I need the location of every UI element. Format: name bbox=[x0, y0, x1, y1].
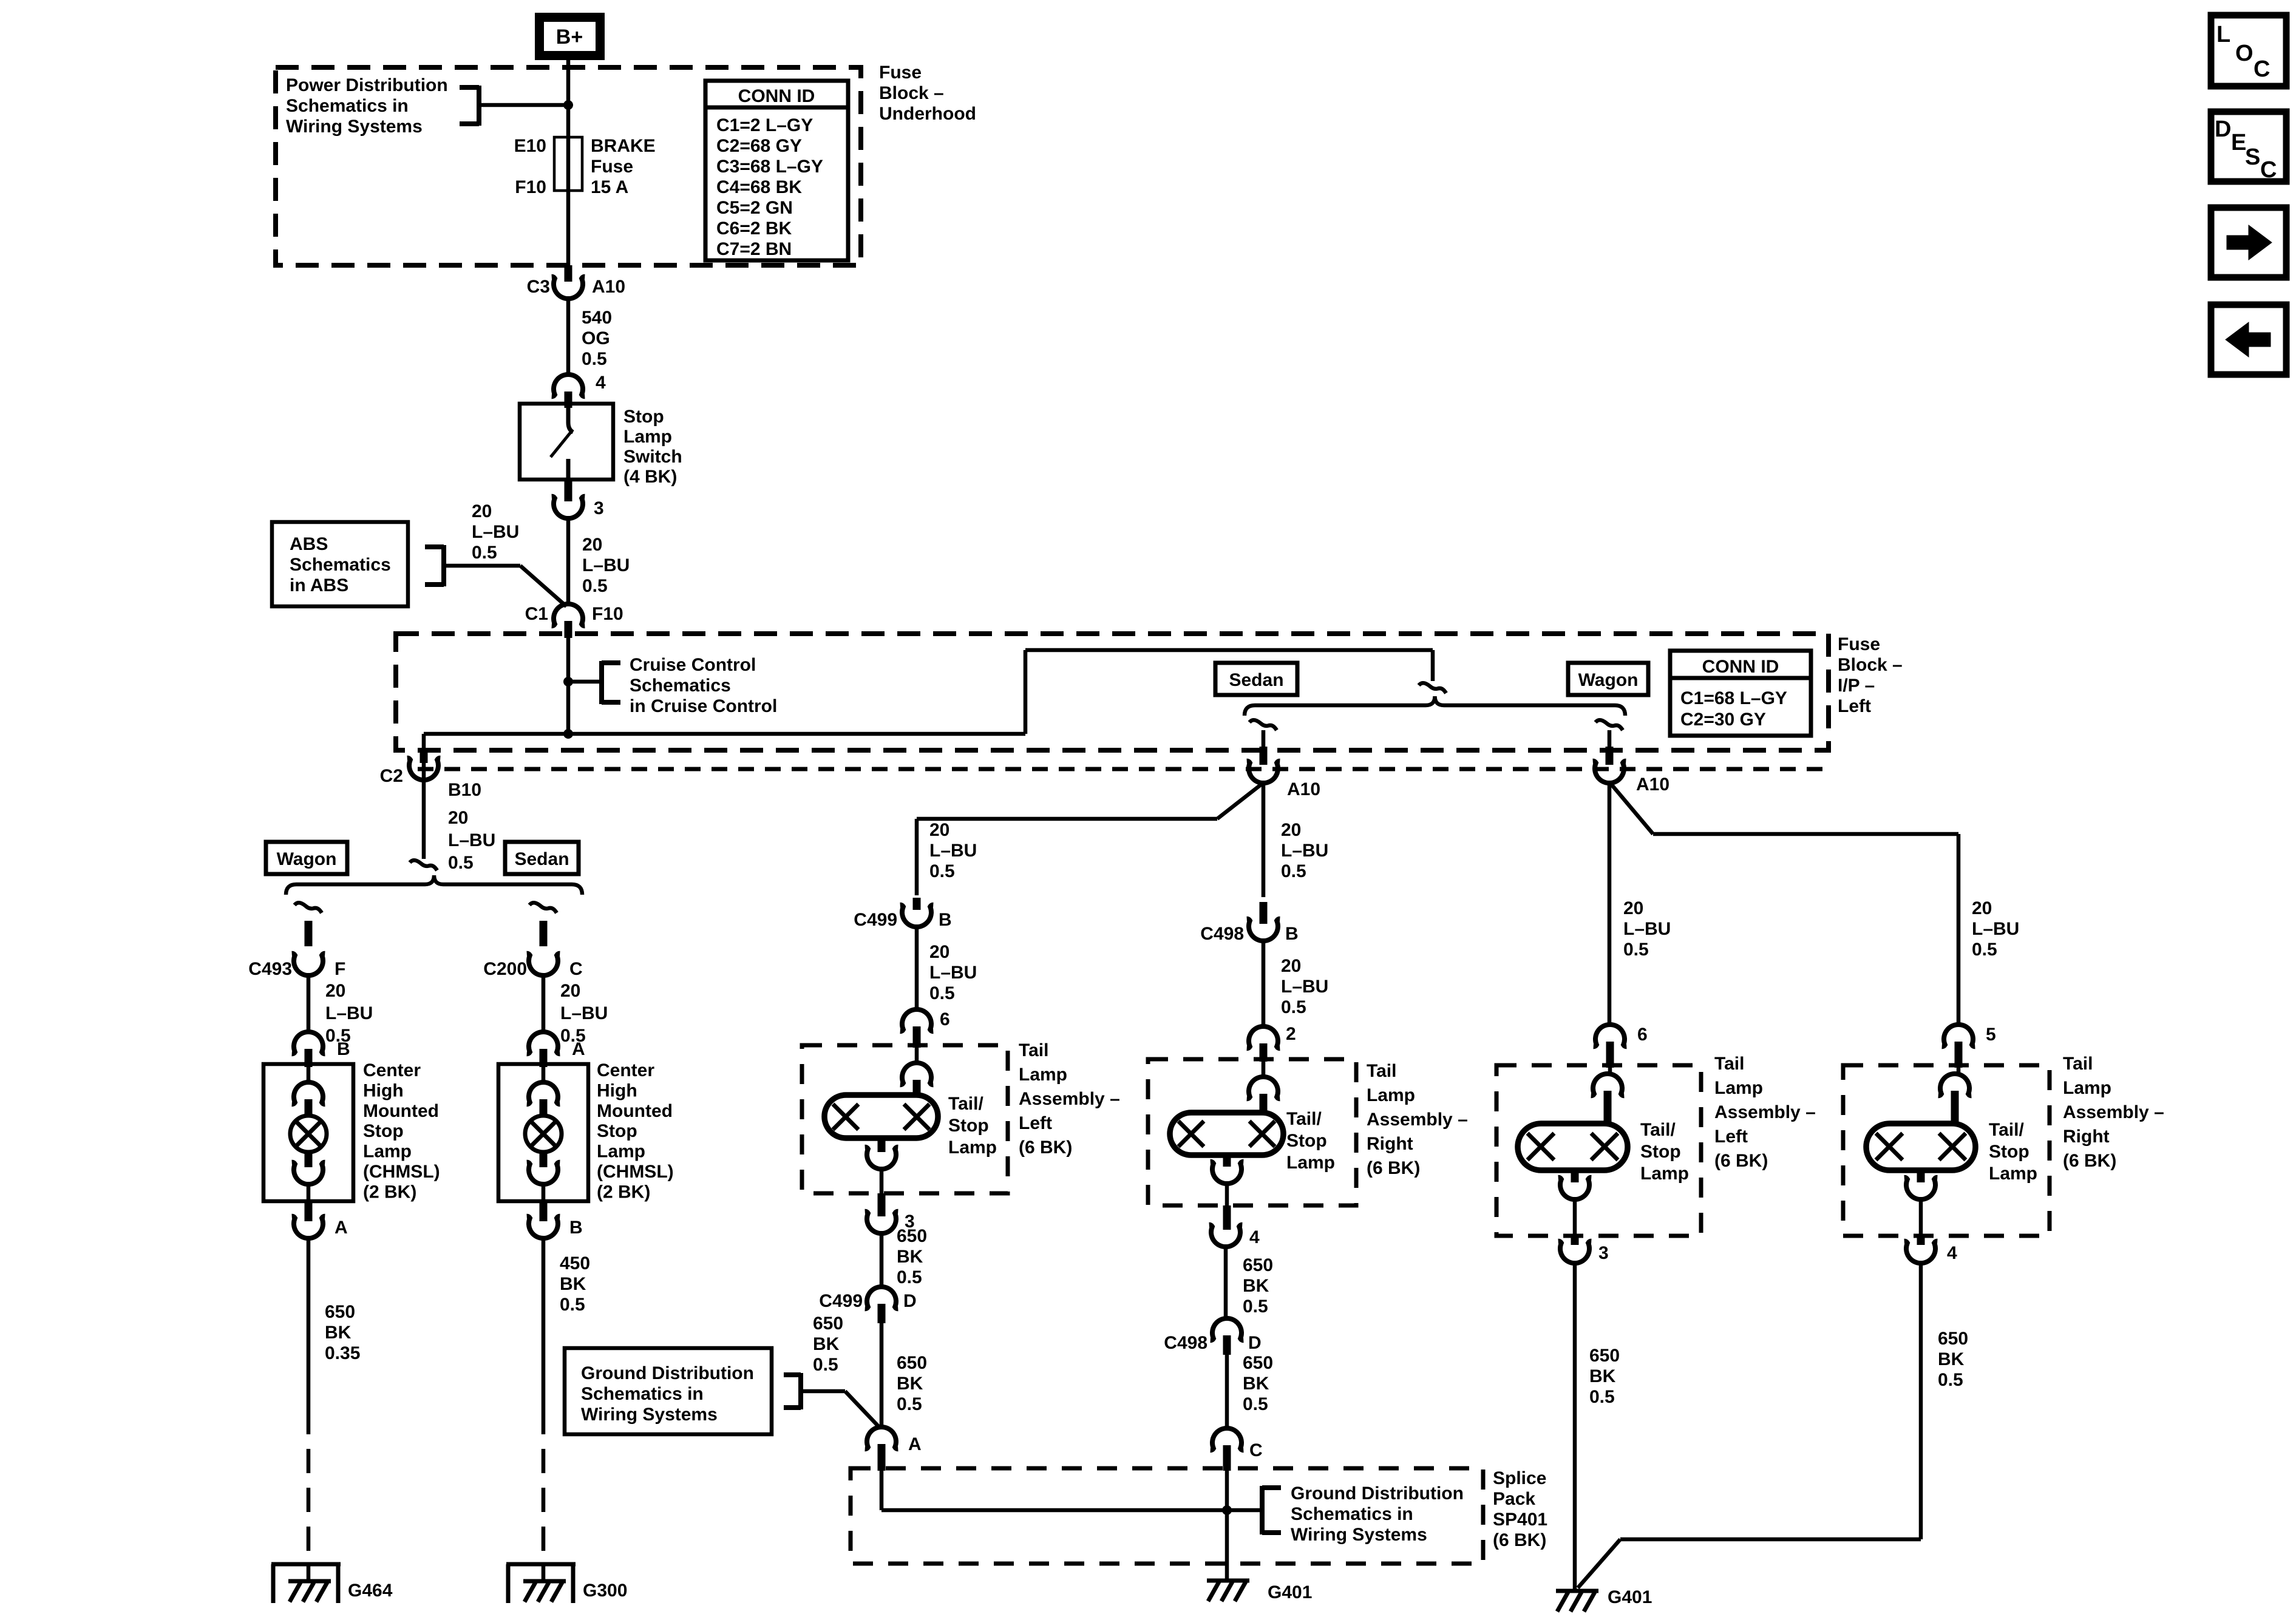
svg-text:C: C bbox=[2254, 56, 2270, 82]
svg-text:C498: C498 bbox=[1164, 1333, 1207, 1353]
svg-text:ABS: ABS bbox=[290, 534, 328, 554]
svg-text:D: D bbox=[1248, 1333, 1262, 1353]
svg-text:SP401: SP401 bbox=[1493, 1510, 1547, 1530]
svg-text:20: 20 bbox=[560, 981, 580, 1001]
svg-text:D: D bbox=[2215, 117, 2231, 142]
svg-text:L–BU: L–BU bbox=[929, 841, 977, 861]
svg-text:Tail/: Tail/ bbox=[1989, 1120, 2024, 1140]
svg-text:Switch: Switch bbox=[623, 447, 682, 467]
svg-text:Wagon: Wagon bbox=[277, 849, 337, 869]
svg-text:C498: C498 bbox=[1200, 924, 1244, 944]
svg-text:Assembly –: Assembly – bbox=[1367, 1110, 1468, 1130]
svg-text:I/P –: I/P – bbox=[1838, 676, 1875, 696]
svg-text:0.5: 0.5 bbox=[1938, 1370, 1963, 1390]
svg-text:Stop: Stop bbox=[623, 407, 664, 427]
svg-text:Lamp: Lamp bbox=[948, 1137, 997, 1158]
svg-text:E10: E10 bbox=[514, 136, 546, 156]
svg-text:4: 4 bbox=[1249, 1227, 1260, 1247]
svg-text:Center: Center bbox=[597, 1060, 654, 1080]
svg-text:BK: BK bbox=[325, 1323, 352, 1343]
svg-text:Lamp: Lamp bbox=[1640, 1164, 1689, 1184]
svg-text:E: E bbox=[2231, 130, 2246, 155]
svg-text:Schematics: Schematics bbox=[630, 676, 731, 696]
svg-text:L–BU: L–BU bbox=[325, 1003, 373, 1023]
svg-text:Lamp: Lamp bbox=[1714, 1078, 1763, 1098]
svg-text:0.5: 0.5 bbox=[560, 1295, 585, 1315]
svg-text:Fuse: Fuse bbox=[1838, 634, 1880, 654]
svg-text:in ABS: in ABS bbox=[290, 575, 348, 595]
svg-text:CONN ID: CONN ID bbox=[1702, 657, 1779, 677]
svg-text:Wiring Systems: Wiring Systems bbox=[1291, 1525, 1427, 1545]
svg-text:Lamp: Lamp bbox=[597, 1142, 645, 1162]
svg-text:Left: Left bbox=[1019, 1113, 1052, 1133]
svg-text:C: C bbox=[2260, 157, 2277, 183]
svg-text:Tail/: Tail/ bbox=[948, 1094, 983, 1114]
svg-text:20: 20 bbox=[1972, 898, 1992, 918]
svg-text:0.5: 0.5 bbox=[929, 861, 955, 881]
svg-text:0.5: 0.5 bbox=[1243, 1394, 1268, 1414]
svg-text:650: 650 bbox=[1243, 1255, 1273, 1275]
svg-text:Left: Left bbox=[1838, 696, 1871, 716]
svg-text:6: 6 bbox=[940, 1009, 950, 1029]
svg-text:3: 3 bbox=[1598, 1243, 1609, 1263]
svg-text:Fuse: Fuse bbox=[879, 63, 922, 83]
svg-text:S: S bbox=[2245, 144, 2260, 170]
svg-text:BK: BK bbox=[560, 1274, 586, 1294]
svg-text:Stop: Stop bbox=[948, 1116, 989, 1136]
svg-text:Mounted: Mounted bbox=[597, 1101, 673, 1121]
svg-text:Lamp: Lamp bbox=[363, 1142, 412, 1162]
svg-text:0.5: 0.5 bbox=[448, 853, 474, 873]
svg-text:BK: BK bbox=[1243, 1374, 1269, 1394]
svg-text:C1: C1 bbox=[525, 604, 548, 624]
svg-text:in Cruise Control: in Cruise Control bbox=[630, 696, 777, 716]
svg-text:BK: BK bbox=[1243, 1276, 1269, 1296]
svg-text:20: 20 bbox=[448, 808, 468, 828]
svg-text:Lamp: Lamp bbox=[1989, 1164, 2037, 1184]
svg-text:C493: C493 bbox=[248, 959, 292, 979]
svg-text:C5=2 GN: C5=2 GN bbox=[716, 198, 793, 218]
svg-text:(CHMSL): (CHMSL) bbox=[363, 1162, 440, 1182]
svg-text:0.5: 0.5 bbox=[1281, 997, 1306, 1017]
svg-text:20: 20 bbox=[929, 942, 949, 962]
svg-text:Stop: Stop bbox=[1989, 1142, 2029, 1162]
svg-text:(6 BK): (6 BK) bbox=[1493, 1530, 1546, 1550]
svg-text:Mounted: Mounted bbox=[363, 1101, 439, 1121]
svg-text:0.5: 0.5 bbox=[813, 1355, 838, 1375]
svg-text:(CHMSL): (CHMSL) bbox=[597, 1162, 674, 1182]
svg-text:(6 BK): (6 BK) bbox=[1019, 1137, 1072, 1158]
svg-text:G464: G464 bbox=[348, 1581, 393, 1601]
svg-text:Sedan: Sedan bbox=[514, 849, 569, 869]
svg-text:20: 20 bbox=[1623, 898, 1643, 918]
svg-text:L–BU: L–BU bbox=[582, 555, 630, 575]
svg-text:L–BU: L–BU bbox=[1623, 919, 1671, 939]
svg-text:Tail: Tail bbox=[1367, 1061, 1396, 1081]
svg-text:L–BU: L–BU bbox=[1972, 919, 2019, 939]
svg-text:A10: A10 bbox=[1287, 779, 1320, 799]
svg-text:C2=30 GY: C2=30 GY bbox=[1680, 710, 1766, 730]
svg-text:G401: G401 bbox=[1268, 1582, 1312, 1602]
svg-text:C7=2 BN: C7=2 BN bbox=[716, 239, 792, 259]
svg-text:650: 650 bbox=[1243, 1353, 1273, 1373]
svg-text:20: 20 bbox=[472, 501, 492, 521]
svg-text:6: 6 bbox=[1637, 1025, 1648, 1045]
svg-text:Stop: Stop bbox=[597, 1121, 637, 1141]
svg-text:Fuse: Fuse bbox=[591, 157, 633, 177]
svg-text:20: 20 bbox=[1281, 956, 1301, 976]
svg-text:Lamp: Lamp bbox=[1367, 1085, 1415, 1105]
svg-text:Stop: Stop bbox=[1286, 1131, 1327, 1151]
svg-text:Assembly –: Assembly – bbox=[1714, 1102, 1816, 1122]
svg-text:B: B bbox=[1285, 924, 1299, 944]
svg-text:High: High bbox=[597, 1080, 637, 1100]
svg-text:A10: A10 bbox=[592, 277, 625, 297]
svg-text:650: 650 bbox=[813, 1314, 843, 1334]
svg-text:Block –: Block – bbox=[879, 83, 944, 103]
svg-text:Assembly –: Assembly – bbox=[2063, 1102, 2164, 1122]
svg-text:Cruise Control: Cruise Control bbox=[630, 655, 756, 675]
svg-text:C6=2 BK: C6=2 BK bbox=[716, 219, 792, 239]
svg-text:Wiring Systems: Wiring Systems bbox=[286, 117, 423, 137]
svg-text:L–BU: L–BU bbox=[448, 830, 495, 850]
svg-text:Lamp: Lamp bbox=[2063, 1078, 2111, 1098]
svg-text:BK: BK bbox=[897, 1374, 923, 1394]
svg-text:15 A: 15 A bbox=[591, 177, 628, 197]
svg-text:C3=68 L–GY: C3=68 L–GY bbox=[716, 157, 823, 177]
svg-text:0.35: 0.35 bbox=[325, 1343, 360, 1363]
svg-text:Left: Left bbox=[1714, 1127, 1748, 1147]
svg-text:High: High bbox=[363, 1080, 404, 1100]
svg-text:5: 5 bbox=[1986, 1025, 1996, 1045]
svg-text:0.5: 0.5 bbox=[560, 1026, 586, 1046]
svg-text:Sedan: Sedan bbox=[1229, 670, 1283, 690]
svg-text:BK: BK bbox=[1589, 1366, 1616, 1386]
svg-text:Tail: Tail bbox=[2063, 1054, 2093, 1074]
svg-text:0.5: 0.5 bbox=[897, 1267, 922, 1287]
svg-text:Schematics: Schematics bbox=[290, 555, 391, 575]
svg-text:0.5: 0.5 bbox=[1623, 940, 1649, 960]
svg-text:Right: Right bbox=[2063, 1127, 2110, 1147]
svg-text:L–BU: L–BU bbox=[1281, 977, 1328, 997]
svg-text:Tail/: Tail/ bbox=[1640, 1120, 1676, 1140]
svg-text:C200: C200 bbox=[483, 959, 527, 979]
svg-text:C1=2 L–GY: C1=2 L–GY bbox=[716, 115, 813, 135]
svg-text:2: 2 bbox=[1286, 1024, 1296, 1044]
svg-text:20: 20 bbox=[929, 820, 949, 840]
svg-text:(6 BK): (6 BK) bbox=[1714, 1151, 1768, 1171]
svg-text:L–BU: L–BU bbox=[929, 963, 977, 983]
svg-text:OG: OG bbox=[582, 328, 610, 348]
svg-text:0.5: 0.5 bbox=[1589, 1387, 1615, 1407]
svg-text:BK: BK bbox=[1938, 1349, 1965, 1369]
svg-text:A: A bbox=[908, 1434, 922, 1454]
svg-text:G401: G401 bbox=[1608, 1587, 1652, 1607]
svg-text:Ground Distribution: Ground Distribution bbox=[1291, 1483, 1464, 1503]
svg-text:0.5: 0.5 bbox=[325, 1026, 351, 1046]
svg-text:CONN ID: CONN ID bbox=[738, 86, 815, 106]
svg-text:(4 BK): (4 BK) bbox=[623, 467, 677, 487]
svg-text:C499: C499 bbox=[854, 910, 897, 930]
svg-text:C499: C499 bbox=[819, 1291, 863, 1311]
svg-text:C3: C3 bbox=[527, 277, 550, 297]
svg-text:Splice: Splice bbox=[1493, 1468, 1546, 1488]
svg-text:L: L bbox=[2216, 22, 2230, 47]
svg-text:Schematics in: Schematics in bbox=[286, 96, 409, 116]
svg-text:(6 BK): (6 BK) bbox=[1367, 1158, 1420, 1178]
svg-text:F10: F10 bbox=[592, 604, 623, 624]
svg-text:L–BU: L–BU bbox=[1281, 841, 1328, 861]
svg-text:BK: BK bbox=[897, 1247, 923, 1267]
svg-text:650: 650 bbox=[1938, 1329, 1968, 1349]
svg-text:(2 BK): (2 BK) bbox=[597, 1182, 650, 1202]
svg-text:450: 450 bbox=[560, 1253, 590, 1273]
svg-text:Wiring Systems: Wiring Systems bbox=[581, 1405, 718, 1425]
svg-text:C: C bbox=[1249, 1440, 1263, 1460]
svg-text:Right: Right bbox=[1367, 1134, 1413, 1154]
svg-text:G300: G300 bbox=[583, 1581, 627, 1601]
svg-text:Ground Distribution: Ground Distribution bbox=[581, 1363, 754, 1383]
svg-text:L–BU: L–BU bbox=[472, 522, 519, 542]
svg-text:0.5: 0.5 bbox=[929, 983, 955, 1003]
svg-text:4: 4 bbox=[1947, 1243, 1957, 1263]
svg-text:4: 4 bbox=[596, 373, 606, 393]
svg-text:C2: C2 bbox=[380, 766, 403, 786]
svg-text:Wagon: Wagon bbox=[1578, 670, 1639, 690]
svg-text:540: 540 bbox=[582, 308, 612, 328]
svg-text:A: A bbox=[335, 1218, 348, 1238]
svg-text:Block –: Block – bbox=[1838, 655, 1903, 675]
svg-text:650: 650 bbox=[1589, 1346, 1620, 1366]
svg-text:BRAKE: BRAKE bbox=[591, 136, 656, 156]
svg-text:650: 650 bbox=[325, 1302, 355, 1322]
svg-text:C1=68 L–GY: C1=68 L–GY bbox=[1680, 688, 1787, 708]
svg-text:Stop: Stop bbox=[363, 1121, 404, 1141]
svg-text:Assembly –: Assembly – bbox=[1019, 1089, 1120, 1109]
svg-text:Schematics in: Schematics in bbox=[581, 1384, 704, 1404]
svg-text:0.5: 0.5 bbox=[897, 1394, 922, 1414]
svg-text:O: O bbox=[2235, 41, 2254, 66]
svg-text:Pack: Pack bbox=[1493, 1489, 1535, 1509]
svg-text:Lamp: Lamp bbox=[1019, 1065, 1067, 1085]
svg-text:650: 650 bbox=[897, 1226, 927, 1246]
svg-text:Tail: Tail bbox=[1019, 1040, 1048, 1060]
svg-text:Power Distribution: Power Distribution bbox=[286, 75, 448, 95]
svg-text:(2 BK): (2 BK) bbox=[363, 1182, 416, 1202]
svg-text:A10: A10 bbox=[1636, 775, 1669, 795]
svg-text:20: 20 bbox=[1281, 820, 1301, 840]
svg-text:650: 650 bbox=[897, 1353, 927, 1373]
svg-text:(6 BK): (6 BK) bbox=[2063, 1151, 2116, 1171]
svg-text:20: 20 bbox=[582, 535, 602, 555]
svg-text:0.5: 0.5 bbox=[1281, 861, 1306, 881]
svg-text:C4=68 BK: C4=68 BK bbox=[716, 177, 802, 197]
svg-text:Tail/: Tail/ bbox=[1286, 1109, 1322, 1129]
svg-text:0.5: 0.5 bbox=[1243, 1297, 1268, 1317]
svg-text:20: 20 bbox=[325, 981, 345, 1001]
svg-text:B: B bbox=[939, 910, 952, 930]
svg-text:C2=68 GY: C2=68 GY bbox=[716, 136, 802, 156]
svg-text:Schematics in: Schematics in bbox=[1291, 1504, 1413, 1524]
svg-text:Tail: Tail bbox=[1714, 1054, 1744, 1074]
svg-text:B+: B+ bbox=[556, 25, 583, 49]
svg-text:Lamp: Lamp bbox=[623, 427, 672, 447]
svg-text:Stop: Stop bbox=[1640, 1142, 1681, 1162]
svg-text:0.5: 0.5 bbox=[582, 576, 608, 596]
svg-text:F: F bbox=[335, 959, 345, 979]
svg-text:Center: Center bbox=[363, 1060, 421, 1080]
svg-text:0.5: 0.5 bbox=[1972, 940, 1997, 960]
svg-text:L–BU: L–BU bbox=[560, 1003, 608, 1023]
svg-text:B10: B10 bbox=[448, 780, 481, 800]
svg-text:BK: BK bbox=[813, 1334, 840, 1354]
svg-text:D: D bbox=[903, 1291, 917, 1311]
svg-text:Lamp: Lamp bbox=[1286, 1153, 1335, 1173]
svg-text:B: B bbox=[569, 1218, 583, 1238]
svg-text:0.5: 0.5 bbox=[582, 349, 607, 369]
svg-text:Underhood: Underhood bbox=[879, 104, 976, 124]
svg-text:3: 3 bbox=[594, 498, 604, 518]
svg-text:F10: F10 bbox=[515, 177, 546, 197]
svg-text:C: C bbox=[569, 959, 583, 979]
svg-text:0.5: 0.5 bbox=[472, 543, 497, 563]
